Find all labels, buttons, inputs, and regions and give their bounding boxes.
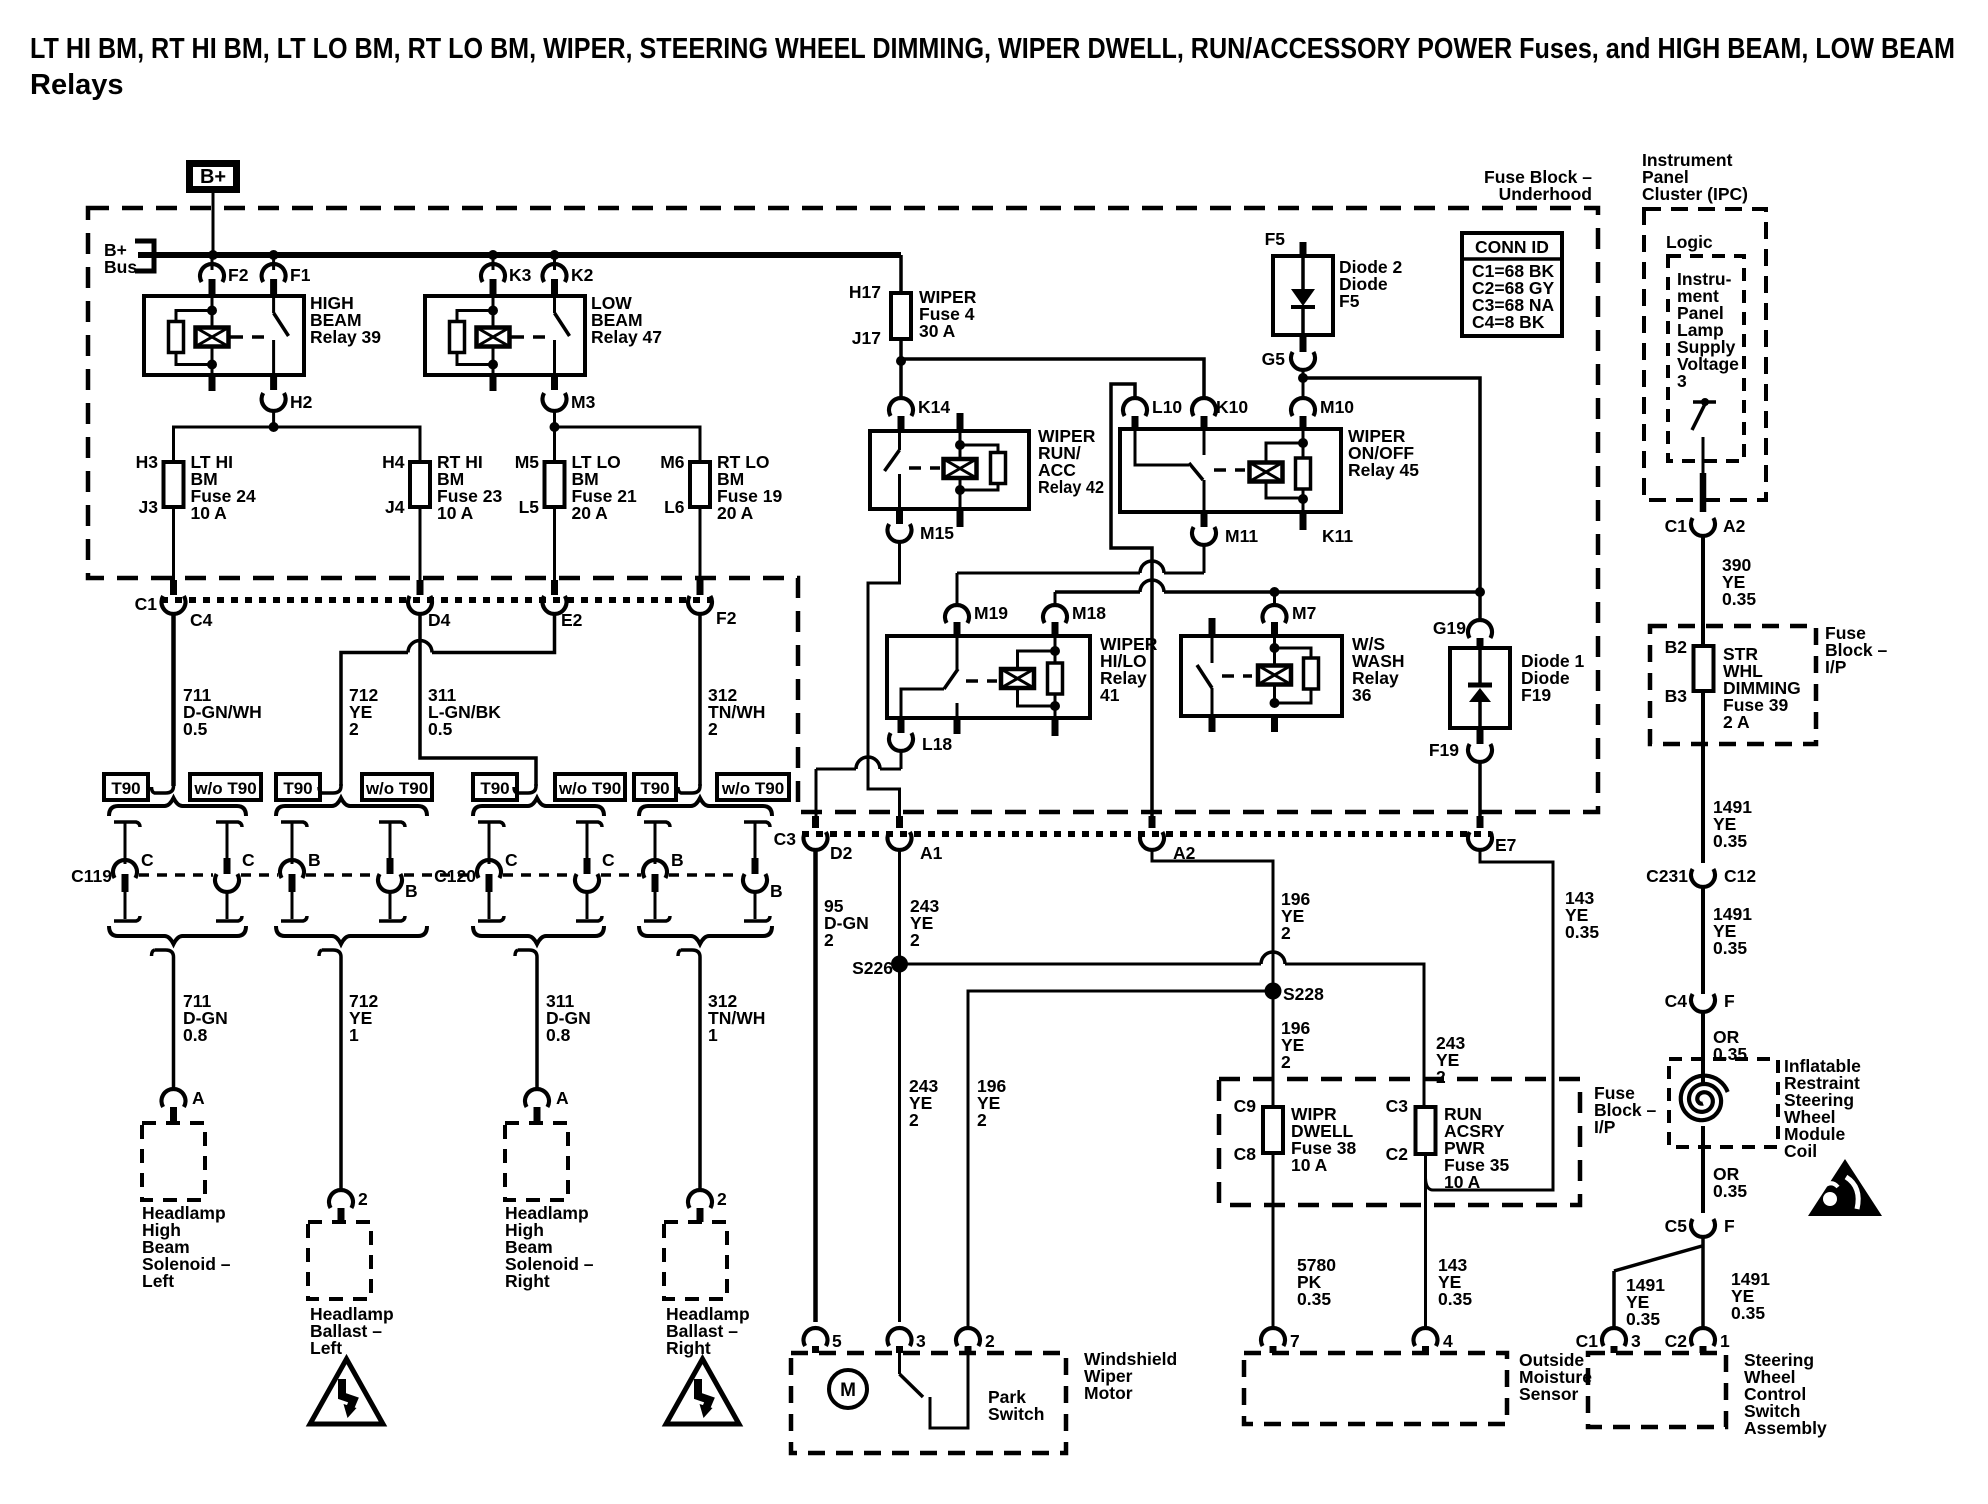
pin stub 5 into motor — [812, 1346, 819, 1353]
svg-text:C2: C2 — [1386, 1144, 1409, 1164]
svg-text:2: 2 — [1281, 1052, 1291, 1072]
wire A2 riser to L10 — [1111, 384, 1152, 818]
relay 42 coil bottom wire — [959, 490, 962, 509]
svg-text:3: 3 — [1631, 1331, 1641, 1351]
option label box T90 #3 — [276, 774, 320, 800]
svg-text:2: 2 — [1281, 923, 1291, 943]
svg-text:2: 2 — [349, 719, 359, 739]
Outside Moisture Sensor dashed box — [1244, 1353, 1507, 1424]
connector cavity A1 — [888, 832, 943, 863]
pin stub M18 into relay 41 — [1052, 622, 1059, 636]
svg-text:I/P: I/P — [1825, 657, 1847, 677]
pin stub IPC output — [1700, 473, 1707, 512]
pin stub into right solenoid — [534, 1107, 541, 1123]
relay 41 coil bottom wire — [1054, 706, 1057, 718]
option label box w/o T90 #6 — [555, 774, 625, 800]
relay 39 actuation dashes — [230, 335, 264, 339]
svg-text:B2: B2 — [1665, 637, 1688, 657]
svg-text:1: 1 — [708, 1025, 718, 1045]
relay 41 switch blade — [944, 669, 958, 689]
headlamp connector group C120 — [434, 798, 615, 944]
pin stub fuse 23 at underhood boundary — [417, 580, 424, 595]
svg-text:A: A — [192, 1088, 205, 1108]
wire end hook below brace 311 — [515, 950, 537, 1090]
wire 196 mid label — [1281, 1018, 1310, 1072]
svg-text:F2: F2 — [228, 265, 249, 285]
svg-text:0.8: 0.8 — [183, 1025, 208, 1045]
relay 42 switch lower contact — [898, 474, 901, 509]
connector K10 — [1192, 397, 1248, 417]
junction dot B+ bus at F2 — [208, 250, 218, 260]
wire fuse 38 to sensor pin 7 — [1272, 1154, 1275, 1330]
Headlamp Ballast - Left label — [310, 1304, 394, 1358]
svg-text:2: 2 — [977, 1110, 987, 1130]
Headlamp High Beam Solenoid - Left dashed box — [142, 1123, 205, 1200]
relay 36 coil resistor branch — [1275, 648, 1319, 703]
connector K14 — [889, 397, 950, 417]
option label box T90 #5 — [473, 774, 517, 800]
connector F1 — [262, 264, 311, 285]
wire end hook above brace x=536 — [514, 784, 536, 793]
junction dot fuse 4 output — [896, 356, 906, 366]
CONN ID table — [1462, 233, 1562, 336]
svg-text:A: A — [556, 1088, 569, 1108]
svg-text:0.35: 0.35 — [1565, 922, 1599, 942]
svg-text:0.8: 0.8 — [546, 1025, 571, 1045]
svg-text:M15: M15 — [920, 523, 954, 543]
svg-text:10 A: 10 A — [1291, 1155, 1328, 1175]
pin stub C2-1 into steering box — [1700, 1346, 1707, 1353]
Headlamp High Beam Solenoid - Right dashed box — [505, 1123, 568, 1200]
pin stub M7 into relay 36 — [1271, 622, 1278, 636]
wire OR upper label — [1713, 1027, 1747, 1064]
wire 243 upper label — [910, 896, 939, 950]
wire L18 to D2 — [816, 751, 901, 818]
svg-text:w/o T90: w/o T90 — [365, 779, 428, 798]
svg-text:C12: C12 — [1724, 866, 1756, 886]
svg-text:H4: H4 — [382, 452, 405, 472]
relay 39 coil bottom blunt pin — [209, 375, 216, 391]
junction dot bus at K2 — [550, 250, 560, 260]
pin stub K2 into relay 47 — [551, 279, 558, 296]
pin stub M10 into relay 45 — [1300, 416, 1307, 429]
svg-text:F2: F2 — [716, 608, 737, 628]
pin stub K3 into relay 47 — [490, 279, 497, 296]
pin stub F5 feed — [1300, 242, 1307, 258]
svg-text:Underhood: Underhood — [1499, 184, 1592, 204]
relay 36 coil top junction — [1270, 643, 1280, 653]
svg-text:Bus: Bus — [104, 257, 137, 277]
Fuse Block - I/P middle label — [1594, 1083, 1657, 1137]
relay 45 switch lower contact — [1203, 480, 1206, 512]
svg-text:Logic: Logic — [1666, 232, 1713, 252]
relay 47 label — [591, 293, 662, 347]
connector 5 wiper motor — [804, 1328, 843, 1351]
title text line 1 — [30, 33, 1955, 65]
pin stub L10 into relay 45 — [1132, 416, 1139, 429]
wire fuse 4 output — [899, 339, 903, 400]
wire 390 YE — [1701, 536, 1705, 646]
option label box w/o T90 #2 — [190, 774, 261, 800]
relay 41 coil feed M18 — [1054, 636, 1057, 652]
wire M3 to fuses 21 and 19 — [555, 427, 701, 462]
relay 45 coil resistor branch — [1296, 443, 1311, 500]
fuse 23 (RT HI BM 10A) — [382, 452, 502, 523]
svg-text:Cluster (IPC): Cluster (IPC) — [1642, 184, 1748, 204]
wire B+ box to bus — [212, 193, 215, 255]
relay 36 switch lower contact — [1211, 688, 1214, 716]
relay 41 box (WIPER HI/LO) — [887, 636, 1090, 718]
pin stub relay 39 to H2 — [270, 375, 277, 390]
svg-text:K2: K2 — [571, 265, 594, 285]
wire 143 YE lower label — [1438, 1255, 1472, 1309]
junction dot bus at F1 — [269, 250, 279, 260]
relay 36 switch blunt pin top-left — [0, 0, 1, 1]
relay 39 label — [310, 293, 381, 347]
diode 2 symbol — [1291, 256, 1315, 335]
relay 42 actuation dashes — [909, 466, 940, 470]
wire A2 to S228 — [1152, 850, 1273, 986]
diode 2 box — [1273, 256, 1333, 335]
svg-text:C2: C2 — [1665, 1331, 1688, 1351]
diode 1 box — [1450, 648, 1510, 728]
svg-text:1: 1 — [1720, 1331, 1730, 1351]
headlamp connector group C119 — [71, 798, 255, 944]
svg-text:Left: Left — [310, 1338, 342, 1358]
svg-text:C5: C5 — [1665, 1216, 1688, 1236]
svg-text:36: 36 — [1352, 685, 1372, 705]
wire M15 to A1 — [868, 542, 900, 818]
pin stub relay 41 to L18 — [898, 718, 905, 733]
relay 41 coil bottom blunt pin — [1052, 718, 1059, 736]
relay 36 label — [1352, 634, 1405, 705]
svg-text:2: 2 — [358, 1189, 368, 1209]
svg-text:L6: L6 — [664, 497, 685, 517]
relay 39 coil bottom junction — [207, 360, 217, 370]
pin stub 2 into motor — [965, 1346, 972, 1353]
wire 143 YE upper label — [1565, 888, 1599, 942]
svg-text:0.35: 0.35 — [1713, 1181, 1747, 1201]
svg-text:F: F — [1724, 991, 1735, 1011]
wire S228 to park switch — [968, 991, 1273, 1330]
svg-text:Coil: Coil — [1784, 1141, 1817, 1161]
relay 45 coil bottom wire — [1302, 499, 1305, 512]
relay 47 coil bottom blunt pin — [490, 375, 497, 391]
svg-text:0.5: 0.5 — [428, 719, 453, 739]
relay 45 box (WIPER ON/OFF) — [1120, 429, 1341, 512]
svg-text:E7: E7 — [1495, 835, 1516, 855]
clockspring coil spiral — [1681, 1076, 1728, 1121]
junction dot H2 branch — [269, 422, 279, 432]
relay 41 switch lower contact — [956, 703, 959, 718]
svg-text:LT HI BM, RT HI BM, LT LO BM,: LT HI BM, RT HI BM, LT LO BM, RT LO BM, … — [30, 33, 1955, 65]
connector M11 — [1192, 526, 1258, 546]
IPC logic inner dashed box — [1668, 256, 1744, 461]
svg-text:Sensor: Sensor — [1519, 1384, 1579, 1404]
pin stub into left ballast — [338, 1208, 345, 1222]
svg-text:K3: K3 — [509, 265, 532, 285]
svg-text:CONN ID: CONN ID — [1475, 237, 1549, 257]
row1 inline connector dotted line — [161, 597, 712, 603]
relay 45 K11 blunt pin — [1303, 512, 1353, 546]
Steering Wheel Control Switch Assembly label — [1744, 1350, 1827, 1438]
svg-text:M10: M10 — [1320, 397, 1354, 417]
svg-text:0.5: 0.5 — [183, 719, 208, 739]
svg-text:F1: F1 — [290, 265, 311, 285]
relay 41 switch pivot wire — [901, 689, 944, 718]
svg-text:F19: F19 — [1521, 685, 1551, 705]
svg-text:2: 2 — [910, 930, 920, 950]
option label box w/o T90 #8 — [717, 774, 789, 800]
connector C4 cavity F — [1665, 991, 1735, 1012]
junction dot M3 branch — [550, 422, 560, 432]
svg-text:2: 2 — [909, 1110, 919, 1130]
svg-text:w/o T90: w/o T90 — [193, 779, 256, 798]
relay 36 left blunt pin below — [1209, 716, 1216, 732]
IPC output driver symbol — [1692, 398, 1716, 473]
wire OR upper — [1701, 1012, 1705, 1076]
svg-text:1: 1 — [349, 1025, 359, 1045]
svg-text:Relay 39: Relay 39 — [310, 327, 381, 347]
connector C1 cavity C4 — [135, 594, 213, 630]
svg-text:20 A: 20 A — [572, 503, 609, 523]
high voltage warning triangle right — [666, 1359, 739, 1424]
wire 1491 YE upper — [1701, 691, 1705, 863]
fuse 38 (WIPR DWELL 10A) — [1234, 1096, 1357, 1175]
wire end hook below brace 712 — [319, 950, 341, 1191]
relay 41 coil top junction — [1050, 646, 1060, 656]
wire 312 from F2 — [698, 614, 702, 786]
B+ Bus label and bracket — [104, 240, 154, 277]
B+ bus wire — [138, 252, 901, 258]
relay 45 switch feed from L10 — [1135, 429, 1189, 465]
connector F2 — [200, 264, 249, 285]
svg-text:S226: S226 — [852, 958, 893, 978]
Windshield Wiper Motor label — [1084, 1349, 1177, 1403]
F5 label — [1265, 229, 1286, 249]
wire fuse4 feed horizontal to K10 — [901, 359, 1204, 400]
connector K3 — [481, 264, 532, 285]
Instrument Panel Cluster label — [1642, 150, 1748, 204]
wire bus to connector F2 — [211, 255, 214, 270]
junction dot diode1 feed join — [1475, 587, 1485, 597]
svg-text:Right: Right — [505, 1271, 550, 1291]
relay 42 coil top junction — [955, 440, 965, 450]
wire M7 drop — [1273, 592, 1276, 607]
connector G19 — [1433, 618, 1492, 638]
Inflatable Restraint Steering Wheel Module Coil dashed box — [1669, 1059, 1778, 1147]
svg-text:Switch: Switch — [988, 1404, 1044, 1424]
wire 712 from E2 with jog left — [341, 614, 555, 786]
svg-text:0.35: 0.35 — [1713, 831, 1747, 851]
diode 1 label — [1521, 651, 1584, 705]
svg-text:C4: C4 — [1665, 991, 1688, 1011]
connector 2 left ballast — [329, 1189, 368, 1209]
svg-text:I/P: I/P — [1594, 1117, 1616, 1137]
relay 47 coil wire to pin — [492, 365, 495, 376]
relay 45 actuation dashes — [1214, 468, 1245, 472]
pin stub 4 into sensor — [1422, 1346, 1429, 1353]
svg-text:0.35: 0.35 — [1297, 1289, 1331, 1309]
svg-text:20 A: 20 A — [717, 503, 754, 523]
relay 42 switch blade — [885, 450, 900, 471]
pin stub fuse 21 at underhood boundary — [551, 580, 558, 595]
wire 95 D-GN from D2 — [813, 850, 818, 1322]
wire 711 D-GN lower label — [183, 991, 228, 1045]
relay 47 coil bottom junction — [488, 360, 498, 370]
relay 42 coil bottom blunt pin — [957, 509, 964, 527]
connector L18 — [889, 733, 952, 754]
wire 1491 YE mid — [1701, 887, 1705, 994]
Headlamp Ballast - Left dashed box — [308, 1222, 371, 1299]
relay 39 coil top junction — [207, 306, 217, 316]
Instrument Panel Cluster dashed box — [1644, 209, 1766, 500]
wire 243 YE from A1 — [898, 850, 901, 1322]
fuse 35 (RUN ACSRY PWR 10A) — [1386, 1096, 1510, 1192]
wire 312 upper label — [708, 685, 765, 739]
relay 41 coil resistor branch — [1048, 651, 1063, 706]
splice S226 — [852, 956, 908, 979]
svg-text:2: 2 — [985, 1331, 995, 1351]
wire fuse 24 output — [172, 507, 175, 580]
relay 42 coil bottom junction — [955, 485, 965, 495]
wire S228 to fuse 38 — [1272, 999, 1275, 1107]
svg-text:Right: Right — [666, 1338, 711, 1358]
relay 39 coil feed wire — [211, 296, 214, 312]
pin stub E7 above — [1477, 816, 1484, 828]
connector 7 sensor — [1261, 1328, 1300, 1351]
connector M18 — [1043, 603, 1106, 623]
svg-text:G5: G5 — [1262, 349, 1286, 369]
junction dot M7 tap — [1270, 587, 1280, 597]
pin stub A2 above — [1149, 816, 1156, 828]
wire G5 to M10 — [1302, 370, 1305, 400]
pin stub relay 47 to M3 — [551, 375, 558, 390]
pin stub F1 into relay 39 — [270, 279, 277, 296]
Windshield Wiper Motor dashed box — [791, 1353, 1066, 1453]
relay 47 switch lower contact — [553, 340, 556, 375]
svg-text:30 A: 30 A — [919, 321, 956, 341]
connector A left solenoid — [162, 1088, 205, 1108]
relay 47 coil top junction — [488, 306, 498, 316]
wire end hook above brace x=341 — [319, 784, 341, 793]
relay 36 coil winding symbol — [1258, 648, 1291, 703]
svg-text:M19: M19 — [974, 603, 1008, 623]
wire G5 feed to diode 1 column — [1303, 378, 1480, 592]
svg-text:C3: C3 — [1386, 1096, 1409, 1116]
svg-text:E2: E2 — [561, 610, 583, 630]
svg-text:0.35: 0.35 — [1722, 589, 1756, 609]
wire drop to G19 — [1478, 592, 1482, 622]
connector L10 — [1123, 397, 1182, 417]
wire fuse 19 output — [699, 507, 702, 580]
pin stub relay 45 to M11 — [1201, 512, 1208, 527]
svg-text:B: B — [405, 881, 418, 901]
park switch label — [988, 1387, 1044, 1424]
svg-text:L10: L10 — [1152, 397, 1182, 417]
svg-text:0.35: 0.35 — [1713, 938, 1747, 958]
svg-text:2: 2 — [824, 930, 834, 950]
wire 312 TN/WH lower label — [708, 991, 765, 1045]
wire S226 to fuse 35 — [900, 952, 1425, 1107]
svg-text:2: 2 — [717, 1189, 727, 1209]
fuse 19 (RT LO BM 20A) — [660, 452, 782, 523]
relay 47 switch blade — [555, 313, 570, 336]
pin stub relay 42 to M15 — [896, 509, 903, 524]
Instrument Panel Lamp Supply Voltage 3 label — [1677, 269, 1739, 391]
row2 inline connector dotted line — [802, 831, 1491, 837]
svg-text:L5: L5 — [519, 497, 540, 517]
wire 390 label — [1722, 555, 1756, 609]
headlamp connector group B group 4 — [639, 798, 783, 944]
connector M15 — [888, 523, 955, 543]
pin stub D2 above — [812, 816, 819, 828]
svg-text:Left: Left — [142, 1271, 174, 1291]
svg-text:J4: J4 — [385, 497, 405, 517]
wire 1491 upper label — [1713, 797, 1752, 851]
wire 311 upper label — [428, 685, 501, 739]
svg-text:0.35: 0.35 — [1438, 1289, 1472, 1309]
relay 42 coil feed — [959, 431, 962, 446]
svg-text:C231: C231 — [1646, 866, 1688, 886]
svg-text:2 A: 2 A — [1723, 712, 1750, 732]
diode 2 label — [1339, 257, 1402, 311]
pin stub K14 into relay 42 — [898, 416, 905, 431]
fuse 39 (STR WHL DIMMING 2A) — [1665, 637, 1801, 732]
relay 45 label — [1348, 426, 1419, 480]
svg-text:F19: F19 — [1429, 740, 1459, 760]
svg-text:B: B — [671, 850, 684, 870]
relay 45 coil top junction — [1298, 438, 1308, 448]
pin stub A1 above — [896, 816, 903, 828]
wire bus to connector F1 — [272, 255, 275, 270]
svg-text:B+: B+ — [200, 166, 226, 188]
connector K2 — [543, 264, 594, 285]
svg-text:3: 3 — [916, 1331, 926, 1351]
park switch blade — [900, 1374, 924, 1397]
connector cavity E2 — [543, 596, 583, 630]
wire 243 to fuse35 label — [1436, 1033, 1465, 1087]
wire bus corner down to fuse 4 — [899, 255, 903, 293]
Inflatable Restraint label — [1784, 1056, 1861, 1161]
svg-text:T90: T90 — [111, 779, 140, 798]
svg-text:Motor: Motor — [1084, 1383, 1133, 1403]
svg-text:C1: C1 — [1576, 1331, 1599, 1351]
headlamp connector group B group 2 — [276, 798, 427, 944]
svg-text:L18: L18 — [922, 734, 952, 754]
pin stub into right ballast — [697, 1208, 704, 1222]
wire 5780 PK label — [1297, 1255, 1336, 1309]
wire riser to M18 — [1054, 592, 1057, 607]
wiper motor M symbol — [829, 1370, 867, 1408]
connector cavity A2 — [1140, 832, 1196, 863]
pin stub fuse 24 at underhood boundary — [170, 580, 177, 595]
pin stub K10 into relay 45 — [1201, 416, 1208, 429]
svg-text:7: 7 — [1290, 1331, 1300, 1351]
relay 36 coil feed M7 — [1273, 636, 1276, 649]
wire 1491 right branch label — [1731, 1269, 1770, 1323]
svg-text:K11: K11 — [1322, 526, 1353, 546]
Fuse Block - I/P middle dashed box — [1219, 1079, 1580, 1205]
svg-text:T90: T90 — [480, 779, 509, 798]
Steering Wheel Control Switch Assembly dashed box — [1588, 1353, 1726, 1427]
svg-text:J17: J17 — [852, 328, 881, 348]
Headlamp Ballast - Right dashed box — [664, 1222, 727, 1299]
svg-text:5: 5 — [832, 1331, 842, 1351]
relay 41 switch upper contact M19 — [956, 636, 959, 671]
connector mating dashed line — [139, 873, 741, 877]
svg-text:S228: S228 — [1283, 984, 1324, 1004]
